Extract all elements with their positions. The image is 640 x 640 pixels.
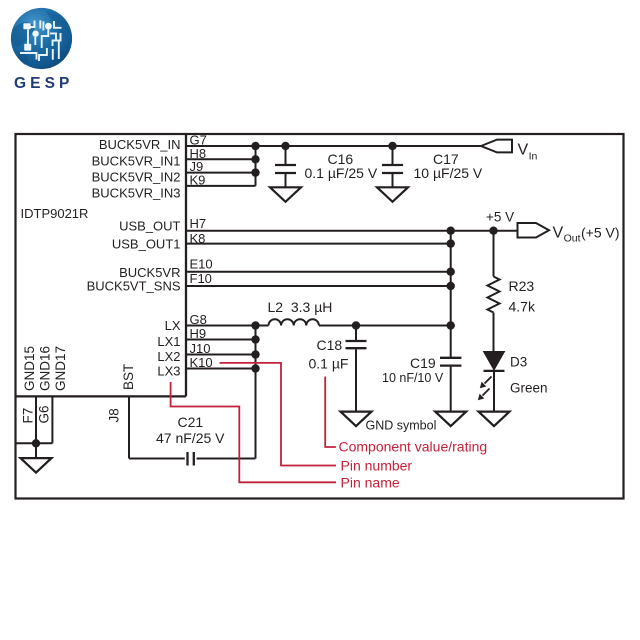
svg-text:4.7k: 4.7k	[509, 299, 536, 315]
schematic border	[16, 134, 624, 499]
wire LX bus vertical	[255, 326, 257, 459]
svg-text:E10: E10	[190, 257, 213, 272]
wire H8	[186, 158, 256, 160]
svg-text:In: In	[529, 151, 538, 163]
svg-text:(+5 V): (+5 V)	[581, 225, 620, 241]
svg-text:GND15: GND15	[22, 346, 37, 391]
flag Vin	[481, 140, 512, 153]
svg-text:10 nF/10 V: 10 nF/10 V	[382, 371, 444, 385]
svg-text:F7: F7	[21, 408, 36, 424]
wire H9	[186, 339, 256, 341]
svg-text:BUCK5VT_SNS: BUCK5VT_SNS	[87, 279, 181, 294]
node dot C18 top	[352, 321, 360, 329]
svg-text:V: V	[553, 225, 564, 242]
svg-text:GND16: GND16	[38, 346, 53, 391]
capacitor C16	[275, 146, 296, 187]
node dot gnd tie	[32, 439, 40, 447]
svg-text:GND symbol: GND symbol	[366, 419, 437, 433]
svg-text:G6: G6	[37, 405, 52, 423]
svg-text:C21: C21	[178, 414, 204, 430]
svg-text:Out: Out	[564, 233, 581, 245]
wire J10	[186, 354, 256, 356]
capacitor C18	[346, 326, 367, 412]
wire K8	[186, 243, 451, 245]
callout line component value	[325, 377, 336, 448]
svg-text:USB_OUT: USB_OUT	[119, 219, 180, 234]
inductor L2	[269, 319, 319, 325]
svg-text:10 µF/25 V: 10 µF/25 V	[414, 165, 483, 181]
wire G8 / LX rail left	[186, 325, 269, 327]
wire H7 (+5V rail)	[186, 230, 518, 232]
node dot K10/LX bus	[251, 364, 259, 372]
node dot H7/bus	[447, 227, 455, 235]
svg-text:BUCK5VR_IN3: BUCK5VR_IN3	[92, 186, 181, 201]
svg-text:BST: BST	[121, 364, 136, 390]
svg-text:C18: C18	[317, 337, 343, 353]
wire E10	[186, 271, 451, 273]
wire K9	[186, 185, 256, 187]
callout line pin name	[171, 382, 336, 482]
wire gnd tie	[16, 442, 53, 444]
ground below C18	[341, 412, 372, 427]
svg-text:0.1 µF: 0.1 µF	[309, 356, 349, 372]
wire LX rail right	[319, 325, 451, 327]
wire F7 stub	[35, 396, 37, 443]
node dot G8/LX bus	[251, 321, 259, 329]
ground below C17	[377, 187, 408, 202]
svg-text:0.1 µF/25 V: 0.1 µF/25 V	[305, 165, 378, 181]
node dot C16 top	[281, 142, 289, 150]
node dot J10/LX bus	[251, 350, 259, 358]
node dot J9/bus	[251, 168, 259, 176]
node dot G8/output bus	[447, 321, 455, 329]
label Vout(+5 V)	[553, 225, 620, 245]
capacitor C17	[382, 146, 403, 187]
wire K10	[186, 368, 256, 370]
svg-text:47 nF/25 V: 47 nF/25 V	[156, 430, 225, 446]
svg-text:Pin number: Pin number	[341, 458, 413, 474]
svg-text:BUCK5VR_IN: BUCK5VR_IN	[99, 137, 181, 152]
wire J9	[186, 172, 256, 174]
svg-text:R23: R23	[509, 278, 535, 294]
svg-text:D3: D3	[510, 355, 527, 370]
node dot E10/bus	[447, 268, 455, 276]
wire gnd stub	[35, 443, 37, 458]
svg-text:Component value/rating: Component value/rating	[339, 439, 488, 455]
ground below D3	[479, 412, 510, 427]
svg-text:F10: F10	[190, 271, 212, 286]
svg-text:LX1: LX1	[157, 334, 180, 349]
ground below C16	[270, 187, 301, 202]
svg-text:L2 3.3 µH: L2 3.3 µH	[268, 299, 333, 315]
svg-text:GND17: GND17	[53, 346, 68, 391]
svg-text:H7: H7	[190, 216, 207, 231]
node dot F10/bus	[447, 282, 455, 290]
node dot H8/bus	[251, 155, 259, 163]
wire F10	[186, 285, 451, 287]
flag Vout	[518, 223, 550, 238]
node dot R23 top	[489, 227, 497, 235]
wire G7 to Vin	[186, 145, 481, 147]
IC U1 IDTP9021R body	[16, 134, 187, 396]
capacitor C19	[440, 358, 461, 412]
svg-text:+5 V: +5 V	[486, 210, 514, 225]
label Vin	[518, 142, 538, 163]
node dot C17 top	[388, 142, 396, 150]
svg-text:LX3: LX3	[157, 364, 180, 379]
svg-text:Pin name: Pin name	[341, 475, 400, 491]
svg-text:C19: C19	[410, 355, 436, 371]
svg-text:GESP: GESP	[14, 75, 73, 92]
svg-text:LX: LX	[165, 318, 181, 333]
svg-text:J8: J8	[107, 408, 122, 422]
node dot K8/bus	[447, 239, 455, 247]
ground symbol left	[21, 458, 52, 473]
logo globe	[11, 8, 72, 69]
svg-text:BUCK5VR_IN2: BUCK5VR_IN2	[92, 170, 181, 185]
LED D3	[478, 352, 505, 412]
wire G6 stub	[51, 396, 53, 443]
ground below C19	[435, 412, 466, 427]
svg-text:USB_OUT1: USB_OUT1	[112, 237, 181, 252]
svg-text:V: V	[518, 142, 529, 159]
svg-text:IDTP9021R: IDTP9021R	[21, 206, 89, 221]
svg-text:LX2: LX2	[157, 349, 180, 364]
node dot G7/bus	[251, 142, 259, 150]
callout line pin number	[220, 363, 337, 466]
resistor R23	[488, 231, 500, 351]
wire output bus vertical	[450, 231, 452, 357]
svg-text:Green: Green	[510, 381, 548, 396]
wire input bus vertical	[255, 146, 257, 186]
capacitor C21	[129, 396, 256, 465]
node dot H9/LX bus	[251, 335, 259, 343]
svg-text:BUCK5VR_IN1: BUCK5VR_IN1	[92, 154, 181, 169]
